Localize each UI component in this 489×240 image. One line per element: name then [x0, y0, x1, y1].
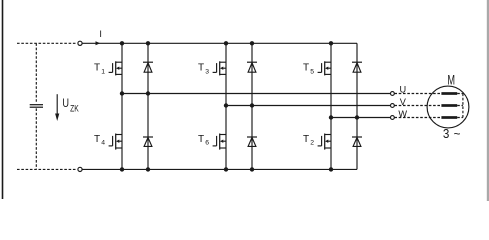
- svg-text:3: 3: [205, 68, 209, 75]
- current arrow I: [96, 41, 101, 45]
- junction: [224, 167, 228, 171]
- wire: upper diode column 1: [147, 43, 149, 93]
- node: DC+ input terminal: [78, 41, 82, 45]
- junction: [146, 41, 150, 45]
- junction: [329, 41, 333, 45]
- wire: phase V line: [226, 105, 390, 107]
- junction: [224, 41, 228, 45]
- svg-text:ZK: ZK: [70, 104, 79, 114]
- svg-text:~: ~: [454, 126, 461, 141]
- wire: upper diode column 5: [356, 43, 358, 117]
- junction: [120, 41, 124, 45]
- wire: dashed motor lead V: [394, 105, 441, 107]
- node: DC- input terminal: [78, 167, 82, 171]
- wire: upper diode column 3: [251, 43, 253, 105]
- motor winding bar W: [441, 116, 457, 119]
- transistor T6: [198, 134, 226, 150]
- svg-text:6: 6: [205, 140, 209, 147]
- junction: [224, 103, 228, 107]
- junction: [329, 115, 333, 119]
- wire: upper leg of T5 column: [330, 43, 332, 117]
- freewheeling diode D3: [352, 62, 362, 72]
- junction: [146, 167, 150, 171]
- wire: lower leg of T6 column: [225, 106, 227, 170]
- freewheeling diode D2: [247, 62, 257, 72]
- voltage arrow U_ZK: [55, 94, 59, 121]
- freewheeling diode D5: [247, 137, 257, 146]
- junction: [120, 167, 124, 171]
- freewheeling diode D4: [143, 137, 153, 146]
- wire: bottom DC rail: [82, 168, 357, 170]
- wire: DC+ dashed feeder: [17, 42, 77, 44]
- transistor T2: [303, 134, 331, 150]
- wire: lower leg of T4 column: [121, 94, 123, 170]
- capacitor C_ZK: [30, 105, 43, 108]
- junction: [355, 115, 359, 119]
- wire: dashed motor lead W: [394, 117, 441, 119]
- node: output terminal V: [391, 104, 395, 108]
- svg-text:T: T: [198, 134, 204, 145]
- wire: top DC rail: [82, 42, 357, 44]
- node: output terminal W: [391, 116, 395, 120]
- svg-text:3: 3: [443, 127, 450, 142]
- transistor T5: [303, 61, 331, 75]
- wire: phase U line: [122, 93, 390, 95]
- motor winding bar U: [441, 92, 457, 95]
- transistor T3: [198, 61, 226, 75]
- wire: phase W line: [331, 117, 390, 119]
- wire: lower diode column 5: [356, 118, 358, 170]
- svg-text:2: 2: [310, 140, 314, 147]
- junction: [250, 41, 254, 45]
- wire: motor star point dashed: [457, 94, 463, 118]
- wire: DC-link dashed branch upper: [35, 43, 37, 103]
- junction: [250, 167, 254, 171]
- svg-text:I: I: [99, 29, 102, 39]
- motor winding bar V: [441, 104, 457, 107]
- transistor T1: [94, 61, 122, 75]
- junction: [120, 91, 124, 95]
- label U_ZK: [62, 97, 79, 114]
- wire: upper leg of T3 column: [225, 43, 227, 105]
- svg-text:U: U: [400, 84, 407, 94]
- node: output terminal U: [391, 92, 395, 96]
- wire: lower diode column 3: [251, 106, 253, 170]
- wire: dashed motor lead U: [394, 93, 441, 95]
- wire: lower diode column 1: [147, 94, 149, 170]
- wire: DC-link dashed branch lower: [35, 108, 37, 169]
- svg-text:T: T: [303, 63, 309, 74]
- junction: [146, 91, 150, 95]
- freewheeling diode D6: [352, 137, 362, 146]
- svg-text:4: 4: [101, 140, 105, 147]
- freewheeling diode D1: [143, 62, 153, 72]
- transistor T4: [94, 134, 122, 150]
- svg-text:T: T: [94, 63, 100, 74]
- svg-text:U: U: [62, 97, 69, 111]
- svg-text:T: T: [94, 134, 100, 145]
- svg-text:1: 1: [101, 68, 105, 75]
- svg-text:T: T: [303, 134, 309, 145]
- svg-text:M: M: [447, 74, 455, 88]
- junction: [250, 103, 254, 107]
- wire: lower leg of T2 column: [330, 118, 332, 170]
- motor M (3-phase): [427, 74, 469, 141]
- wire: DC- dashed feeder: [17, 168, 77, 170]
- wire: upper leg of T1 column: [121, 43, 123, 93]
- junction: [329, 167, 333, 171]
- svg-text:5: 5: [310, 68, 314, 75]
- svg-text:T: T: [198, 63, 204, 74]
